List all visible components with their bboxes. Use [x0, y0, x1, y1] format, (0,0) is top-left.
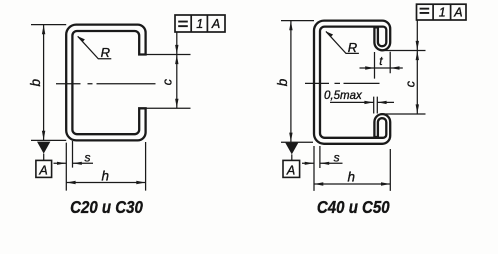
arrow h right (right fig) [381, 182, 390, 185]
arrow b bottom (left) [42, 131, 45, 140]
profile outline C20/C30 (left channel cross-section) [66, 25, 145, 141]
svg-text:0,5max: 0,5max [324, 90, 363, 102]
arrow s left (left fig) [57, 162, 66, 165]
datum symbol A (left): filled triangle [37, 142, 50, 154]
dimension s (left): extension lines [54, 141, 94, 191]
arrow h right (left fig) [136, 181, 145, 184]
arrow s left (right fig) [305, 162, 314, 165]
radius leader R (left) [78, 36, 112, 59]
tolerance frame (left) [175, 15, 225, 32]
datum box A (right) [283, 160, 300, 177]
arrow h left (left fig) [67, 181, 76, 184]
dimension t (right): extension lines [360, 52, 403, 79]
0,5max gap extension ticks (right) [374, 97, 378, 114]
arrow b bottom (right) [289, 133, 292, 142]
dimension b (left): dimension line [43, 25, 45, 141]
dimension b (left): extension lines [31, 25, 66, 141]
arrow t right [391, 66, 400, 69]
svg-text:t: t [379, 54, 383, 68]
radius leader R (right) [326, 31, 359, 53]
svg-text:A: A [453, 6, 462, 20]
0,5max arrow tails [330, 101, 394, 103]
arrow s right (left fig) [73, 162, 82, 165]
datum box A (left) [36, 160, 52, 177]
centerline (right figure axis) [305, 82, 380, 84]
dimension h (right): dimension line and right extension [314, 149, 390, 191]
dimension s (left): arrow tails [54, 162, 94, 164]
svg-text:h: h [348, 170, 356, 185]
dimension h (left): dimension line and right extension [66, 142, 145, 191]
arrow leader down (left) [175, 45, 178, 54]
svg-text:R: R [101, 45, 110, 60]
dimension b (right): extension lines [281, 21, 314, 143]
svg-text:h: h [102, 168, 110, 183]
svg-text:c: c [161, 78, 175, 85]
arrow c bottom (left) [175, 99, 178, 108]
arrow s right (right fig) [320, 162, 329, 165]
arrow 0,5max right [378, 101, 387, 104]
svg-text:s: s [85, 150, 91, 164]
arrow t left [365, 66, 374, 69]
dimension c (left): extension lines [140, 32, 191, 108]
svg-text:R: R [348, 40, 357, 55]
arrow b top (left) [42, 25, 45, 34]
svg-text:c: c [403, 80, 417, 87]
svg-text:C20 и C30: C20 и C30 [70, 198, 143, 217]
arrow c bottom (right) [416, 104, 419, 113]
svg-text:A: A [286, 163, 295, 177]
dimension s (right): extension lines [302, 146, 343, 191]
profile outline C40/C50 (right channel cross-section with curled lips) [314, 21, 390, 144]
dimension s (right): arrow tails [302, 162, 343, 164]
svg-text:1: 1 [196, 17, 203, 31]
svg-text:s: s [334, 150, 340, 164]
arrow h left (right fig) [314, 182, 323, 185]
svg-text:A: A [211, 17, 220, 31]
arrow leader down (right) [416, 41, 419, 50]
datum stem (left) [43, 154, 45, 161]
arrow R (left) [78, 36, 85, 42]
tolerance frame (right) [417, 4, 467, 20]
arrow 0,5max left [364, 101, 373, 104]
dimension t (right): line and tails [360, 67, 403, 69]
leader from tolerance frame (right) [416, 20, 418, 51]
centerline (left figure axis) [56, 83, 156, 85]
arrow R (right) [326, 31, 333, 37]
svg-text:C40 и C50: C40 и C50 [317, 198, 390, 217]
arrow b top (right) [289, 21, 292, 30]
leader from tolerance frame (left) [176, 32, 178, 55]
parallelism symbol (left frame) [178, 21, 188, 23]
datum symbol A (right): filled triangle [285, 143, 298, 155]
svg-text:b: b [28, 79, 43, 87]
dimension c (right): dimension line [416, 51, 418, 115]
arrow c top (right) [416, 51, 419, 60]
dimension c (right): extension lines [380, 20, 426, 114]
arrow c top (left) [175, 55, 178, 64]
svg-text:b: b [275, 78, 290, 86]
parallelism symbol (right frame) [420, 8, 430, 10]
dimension b (right): dimension line [290, 21, 292, 143]
dimension c (left): dimension line [176, 55, 178, 109]
svg-text:A: A [38, 163, 47, 177]
svg-text:1: 1 [439, 6, 446, 20]
datum stem (right) [291, 154, 293, 160]
